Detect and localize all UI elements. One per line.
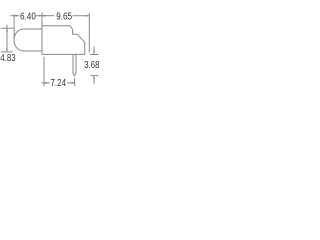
- LED dome lens (left rounded cap): [14, 29, 42, 51]
- arrowhead 3.68 top (points down): [93, 51, 95, 54]
- lead left edge: [73, 55, 75, 76]
- 3.68 ticks: [90, 54, 99, 56]
- svg-text:9.65: 9.65: [56, 12, 72, 23]
- dimension line 6.40: [10, 15, 19, 17]
- arrowhead 6.40 right: [39, 15, 42, 17]
- extension line x=89.3 (9.65 right): [88, 13, 90, 52]
- arrowhead 9.65 right: [86, 15, 89, 17]
- svg-text:7.24: 7.24: [51, 78, 67, 89]
- 7.24 dimension line: [42, 82, 50, 84]
- 7.24 extension line at front face: [43, 57, 45, 87]
- 4.83 dimension line: [6, 25, 8, 52]
- 3.68 arrow tails: [93, 47, 95, 55]
- dimension line 9.65: [42, 15, 54, 17]
- arrowhead 7.24 right: [72, 82, 75, 84]
- arrowhead 7.24 left: [44, 82, 47, 84]
- 4.83 extension lines: [1, 27, 13, 29]
- arrowhead 4.83 bottom: [6, 49, 8, 52]
- arrowhead 4.83 top: [6, 28, 8, 31]
- svg-text:4.83: 4.83: [0, 53, 16, 64]
- arrowhead 9.65 left: [42, 15, 45, 17]
- svg-text:3.68: 3.68: [84, 60, 100, 71]
- arrowhead 3.68 bottom (points up): [93, 76, 95, 79]
- arrowhead 6.40 left: [14, 15, 17, 17]
- extension line x=42 (shared 6.40/9.65): [41, 12, 43, 25]
- extension line x=14 (6.40 left): [13, 14, 15, 38]
- LED body outline (housing with stepped top-right): [42, 26, 85, 55]
- 7.24 lead-center extension: [74, 78, 76, 86]
- lead right edge: [75, 55, 77, 76]
- background: [0, 0, 100, 100]
- svg-text:6.40: 6.40: [20, 12, 36, 23]
